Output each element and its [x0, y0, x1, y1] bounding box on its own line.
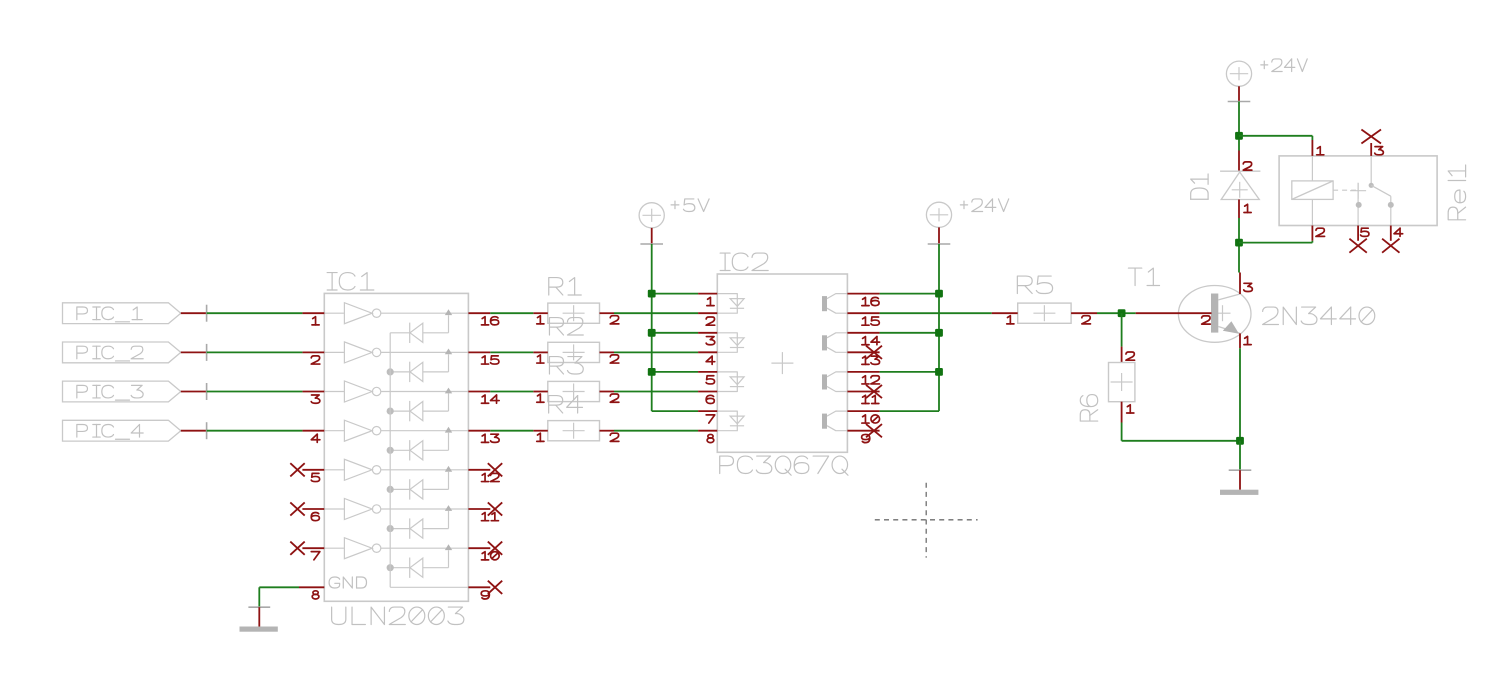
IC2 LED cell 4: [717, 411, 737, 431]
wire R5 to T1 base node: [1097, 312, 1122, 314]
label R1: [549, 278, 563, 295]
node emitter junction: [1236, 437, 1244, 445]
ground GND1: [248, 606, 270, 608]
relay pin 2: [1311, 226, 1313, 241]
+5V bus branches to IC2 pins 1,3,5: [652, 293, 698, 295]
IC1 driver cell 6: [324, 508, 344, 510]
IC2 pin 5: [698, 371, 717, 373]
R5 pin 2: [1071, 312, 1097, 314]
R2 pin 1: [533, 351, 548, 353]
resistor R4: [548, 421, 600, 441]
PIC_4 flag pin: [181, 430, 207, 432]
relay pin 5 (unconnected): [1357, 226, 1359, 241]
wire IC1 pin 13 to R4: [490, 430, 533, 432]
IC1 pin 1: [302, 312, 324, 314]
IC1 pin 12: [468, 469, 490, 471]
IC2 pin 8: [698, 430, 717, 432]
IC1 common cathode rail to pin 9: [389, 333, 391, 588]
IC1 pin 7: [302, 547, 324, 549]
R5 pin 1: [992, 312, 1018, 314]
wire R1 to IC2 pin 2: [614, 312, 698, 314]
R4 pin 2: [600, 430, 615, 432]
supply +5V: [639, 203, 664, 228]
supply +24V (middle): [926, 202, 951, 227]
IC2 LED cell 1: [717, 294, 737, 314]
origin marker cross: [875, 519, 978, 521]
label R4: [549, 396, 563, 413]
net flag PIC_3: [63, 381, 181, 402]
+5V net vertical bus: [651, 244, 653, 411]
IC1 pin 3: [302, 391, 324, 393]
net PIC_2 wire: [207, 351, 303, 353]
IC1 pin 9: [468, 586, 490, 588]
IC2 phototransistor cell 2: [822, 335, 827, 350]
IC1 driver cell 5: [324, 469, 344, 471]
IC1 clamp diode 4: [445, 427, 452, 433]
IC1 clamp diode 1: [445, 309, 452, 315]
net PIC_3 wire: [207, 391, 303, 393]
IC1 pin 10: [468, 547, 490, 549]
resistor R5: [1018, 303, 1071, 323]
label R2: [549, 318, 563, 335]
relay dashed link: [1333, 189, 1356, 191]
net IC1 pin 8 to ground: [259, 586, 299, 588]
+24V top pin: [1238, 86, 1240, 101]
+24V bus elbow to IC2 pin 10: [880, 410, 939, 412]
IC1 driver cell 2: [324, 351, 344, 353]
wire IC1 pin 15 to R2: [490, 351, 533, 353]
wire D1 anode to collector node: [1238, 218, 1240, 273]
IC2 pin 16: [847, 293, 879, 295]
relay coil: [1292, 181, 1333, 200]
relay common arm: [1370, 156, 1372, 185]
IC2 pin 4: [698, 351, 717, 353]
+5V bus elbow to IC2 pin 7: [652, 410, 698, 412]
PIC_3 flag pin: [181, 391, 207, 393]
R1 pin 2: [600, 312, 615, 314]
wire +24V down to relay node: [1238, 102, 1240, 151]
IC2 pin 15: [847, 312, 879, 314]
IC1 clamp diode 7: [445, 544, 452, 550]
IC2 phototransistor cell 4: [822, 414, 827, 429]
wire R6 to emitter node: [1121, 423, 1123, 441]
IC1 pin 14: [468, 391, 490, 393]
relay pin 4 (unconnected): [1390, 226, 1392, 241]
IC1 pin 11: [468, 508, 490, 510]
IC1 clamp diode 6: [445, 505, 452, 511]
IC1 pin 5: [302, 469, 324, 471]
net flag PIC_1: [63, 303, 181, 324]
IC1 clamp diode 5: [445, 466, 452, 472]
IC1 pin 4: [302, 430, 324, 432]
diode D1: [1238, 151, 1240, 172]
IC1 driver cell 4: [324, 430, 344, 432]
IC1 clamp diode 2: [445, 349, 452, 355]
IC1 pin 13: [468, 430, 490, 432]
net flag PIC_2: [63, 342, 181, 363]
net IC2 pin 15 to R5: [880, 312, 992, 314]
IC1 pin 15: [468, 351, 490, 353]
relay Rel1 body: [1279, 156, 1437, 226]
IC1 clamp diode 3: [445, 388, 452, 394]
IC2 pin 3: [698, 332, 717, 334]
net PIC_1 wire: [207, 312, 303, 314]
wire R2 to IC2 pin 4: [614, 351, 698, 353]
node relay/diode top junction: [1235, 132, 1243, 140]
T1 collector pin 3: [1239, 273, 1241, 295]
IC1 driver cell 7: [324, 547, 344, 549]
IC IC1 ULN2003 body: [324, 293, 468, 601]
+5V pin: [651, 228, 653, 244]
IC2 pin 10: [847, 410, 879, 412]
relay contact gate: [1350, 190, 1366, 192]
+24V bus branches to IC2 pins 16,14,12: [880, 293, 939, 295]
+24V pin: [938, 227, 940, 244]
IC2 pin 9: [847, 430, 879, 432]
relay pin 3 (unconnected): [1370, 143, 1372, 156]
IC2 pin 1: [698, 293, 717, 295]
IC1 driver cell 1: [324, 312, 344, 314]
wire R4 to IC2 pin 8: [614, 430, 698, 432]
net PIC_4 wire: [207, 430, 303, 432]
T1 emitter pin 1: [1239, 333, 1241, 348]
wire R3 to IC2 pin 6: [614, 391, 698, 393]
supply +24V (top right): [1226, 61, 1251, 86]
R2 pin 2: [600, 351, 615, 353]
IC IC2 PC3Q67Q body: [717, 274, 847, 452]
IC1 pin 8: [299, 586, 324, 588]
R4 pin 1: [533, 430, 548, 432]
resistor R2: [548, 342, 600, 362]
IC2 pin 12: [847, 371, 879, 373]
R3 pin 2: [600, 391, 615, 393]
PIC_1 flag pin: [181, 312, 207, 314]
IC1 driver cell 3: [324, 391, 344, 393]
IC2 phototransistor cell 3: [822, 374, 827, 389]
T1 base pin 2: [1136, 312, 1212, 314]
label R3: [549, 357, 563, 374]
resistor R1: [548, 303, 600, 323]
IC2 LED cell 2: [717, 333, 737, 353]
resistor R6: [1121, 347, 1123, 363]
transistor T1 2N3440: [1178, 286, 1251, 343]
IC1 pin 2: [302, 351, 324, 353]
wire IC1 pin 16 to R1: [490, 312, 533, 314]
R1 pin 1: [533, 312, 548, 314]
IC2 pin 11: [847, 391, 879, 393]
node base junction: [1122, 312, 1136, 314]
ground GND2: [1239, 441, 1241, 470]
IC2 pin 7: [698, 410, 717, 412]
IC2 LED cell 3: [717, 372, 737, 392]
wire base node down to R6: [1121, 313, 1123, 346]
IC2 pin 6: [698, 391, 717, 393]
wire IC1 pin 14 to R3: [490, 391, 533, 393]
IC1 pin 16: [468, 312, 490, 314]
label R6: [1080, 410, 1097, 421]
IC2 pin 14: [847, 332, 879, 334]
resistor R3: [548, 381, 600, 401]
R3 pin 1: [533, 391, 548, 393]
IC1 pin 6: [302, 508, 324, 510]
net flag PIC_4: [63, 420, 181, 441]
wire emitter to ground node: [1239, 348, 1241, 441]
IC2 pin 13: [847, 351, 879, 353]
IC2 phototransistor cell 1: [822, 296, 827, 311]
node diode bottom junction: [1235, 239, 1243, 247]
+24V net vertical bus: [938, 244, 940, 411]
IC2 pin 2: [698, 312, 717, 314]
PIC_2 flag pin: [181, 351, 207, 353]
relay pin 1: [1311, 136, 1313, 140]
